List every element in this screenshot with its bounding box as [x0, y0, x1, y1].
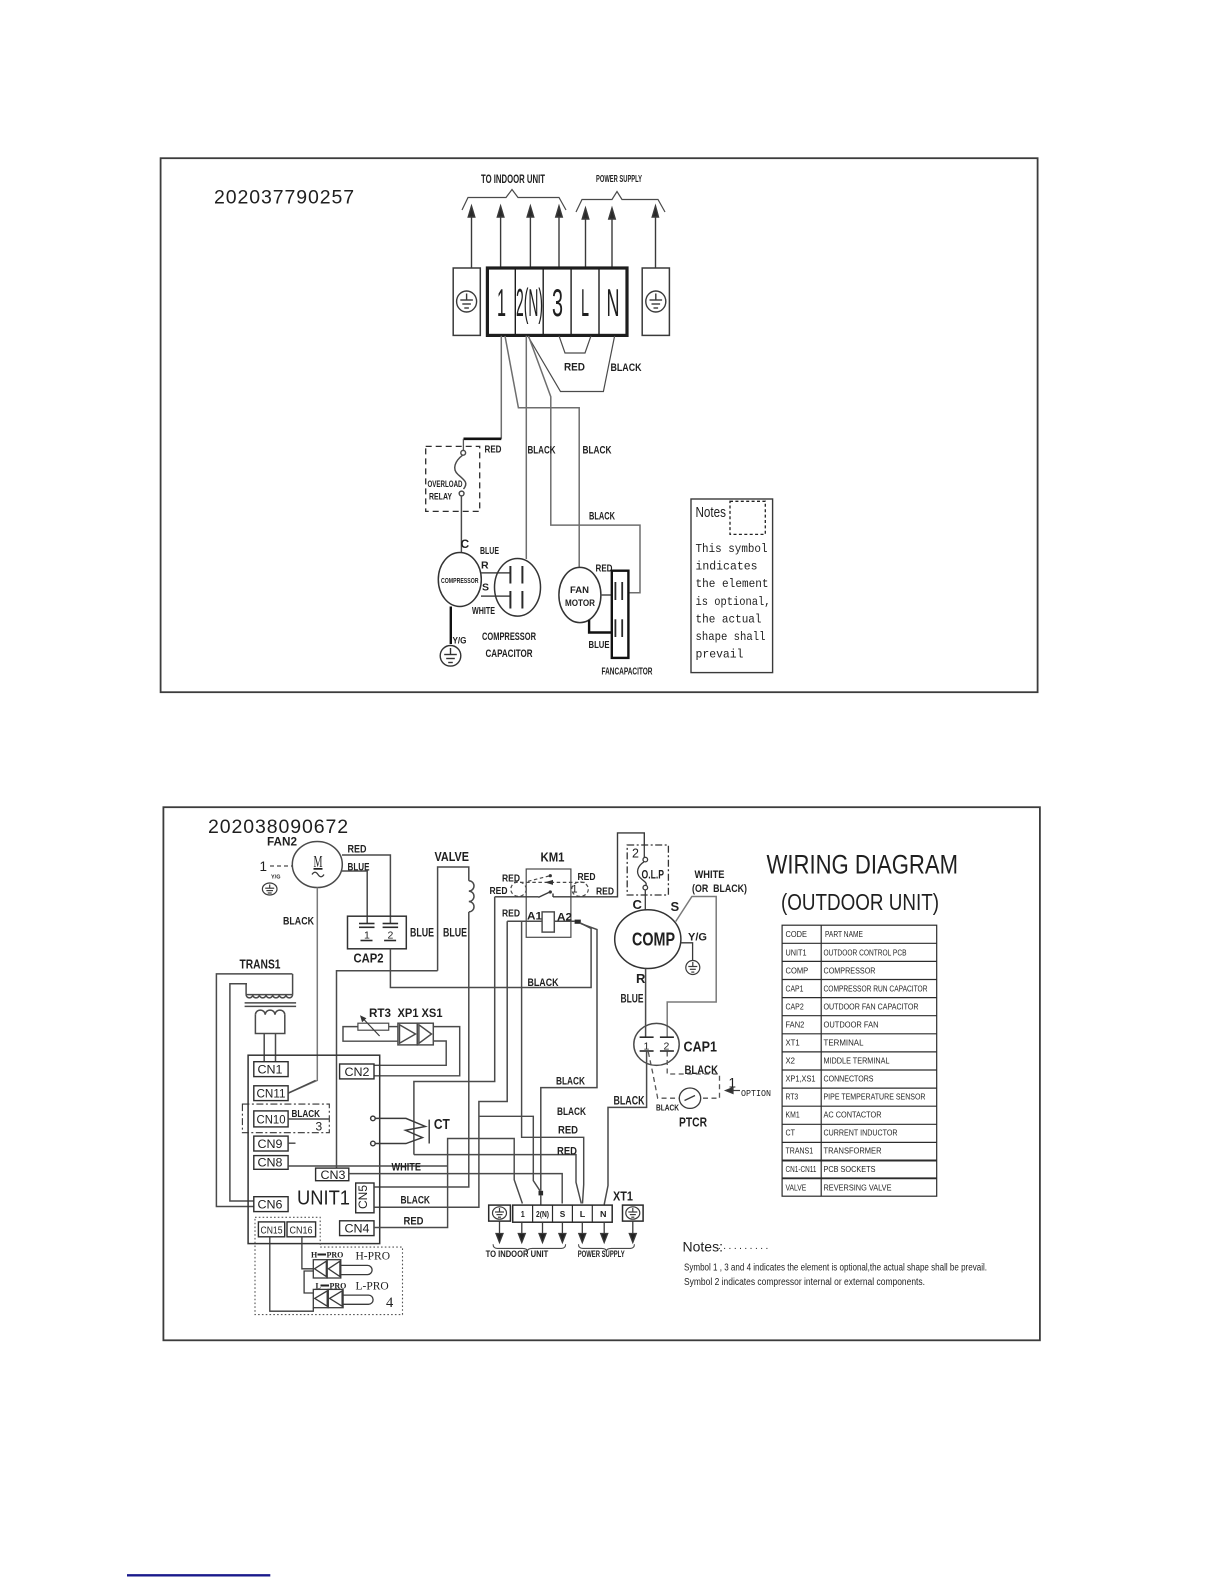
svg-text:CURRENT INDUCTOR: CURRENT INDUCTOR: [824, 1129, 898, 1138]
svg-text:RED: RED: [557, 1146, 577, 1158]
svg-text:..........: ..........: [718, 1241, 771, 1252]
svg-text:OUTDOOR FAN: OUTDOOR FAN: [824, 1021, 879, 1030]
svg-text:X2: X2: [786, 1057, 796, 1066]
svg-text:L-PRO: L-PRO: [356, 1281, 389, 1293]
svg-text:(OR BLACK): (OR BLACK): [692, 883, 747, 895]
svg-text:CN9: CN9: [258, 1139, 283, 1151]
svg-text:CN3: CN3: [321, 1170, 346, 1182]
svg-text:BLACK: BLACK: [656, 1103, 680, 1113]
svg-text:COMP: COMP: [786, 967, 809, 976]
svg-text:2: 2: [664, 1041, 670, 1053]
svg-text:BLACK: BLACK: [589, 511, 615, 523]
svg-text:XT1: XT1: [786, 1039, 800, 1048]
svg-text:RT3: RT3: [786, 1093, 799, 1102]
svg-text:UNIT1: UNIT1: [786, 949, 807, 958]
svg-text:2: 2: [632, 847, 639, 861]
svg-text:RED: RED: [596, 563, 613, 575]
svg-text:RED: RED: [596, 886, 614, 898]
svg-text:FAN2: FAN2: [786, 1021, 805, 1030]
svg-text:AC CONTACTOR: AC CONTACTOR: [824, 1111, 882, 1120]
svg-text:1: 1: [497, 282, 506, 325]
svg-text:Notes: Notes: [696, 504, 727, 521]
svg-text:is optional,: is optional,: [696, 595, 771, 609]
svg-text:RED: RED: [404, 1216, 424, 1228]
svg-text:MOTOR: MOTOR: [565, 598, 595, 608]
svg-text:Y/G: Y/G: [688, 932, 707, 944]
svg-text:XP1: XP1: [398, 1006, 419, 1020]
svg-text:TRANSFORMER: TRANSFORMER: [824, 1147, 882, 1156]
svg-text:TO INDOOR UNIT: TO INDOOR UNIT: [481, 174, 545, 186]
svg-text:CN11: CN11: [257, 1089, 286, 1101]
svg-text:PART NAME: PART NAME: [825, 930, 863, 939]
svg-text:COMPRESSOR: COMPRESSOR: [824, 967, 876, 976]
svg-text:C: C: [461, 537, 470, 551]
svg-text:CN10: CN10: [257, 1115, 286, 1127]
svg-text:H: H: [311, 1251, 318, 1260]
svg-text:CN6: CN6: [258, 1200, 283, 1212]
svg-text:N: N: [607, 282, 620, 325]
svg-text:COMP: COMP: [632, 929, 675, 950]
svg-text:O.L.P: O.L.P: [642, 870, 665, 882]
svg-text:RED: RED: [564, 362, 585, 374]
svg-text:BLACK: BLACK: [283, 916, 314, 928]
svg-text:CN15: CN15: [261, 1226, 283, 1237]
svg-text:WHITE: WHITE: [472, 605, 495, 617]
svg-text:CT: CT: [786, 1129, 796, 1138]
svg-text:CONNECTORS: CONNECTORS: [824, 1075, 874, 1084]
svg-text:prevail: prevail: [696, 648, 744, 662]
svg-text:FAN2: FAN2: [267, 835, 297, 849]
svg-text:CN8: CN8: [258, 1158, 283, 1170]
svg-text:3: 3: [552, 282, 563, 325]
svg-text:COMPRESSOR RUN CAPACITOR: COMPRESSOR RUN CAPACITOR: [824, 985, 928, 994]
svg-text:Y/G: Y/G: [453, 636, 467, 647]
svg-text:BLUE: BLUE: [443, 926, 467, 940]
svg-text:BLACK: BLACK: [528, 977, 559, 989]
svg-text:RT3: RT3: [369, 1006, 391, 1020]
svg-text:POWER SUPPLY: POWER SUPPLY: [596, 174, 642, 185]
svg-text:the actual: the actual: [696, 612, 762, 626]
svg-text:BLACK: BLACK: [685, 1063, 719, 1077]
svg-text:UNIT1: UNIT1: [297, 1188, 350, 1210]
svg-text:WIRING DIAGRAM: WIRING DIAGRAM: [767, 850, 959, 880]
svg-text:Notes:: Notes:: [683, 1239, 723, 1255]
svg-text:R: R: [636, 971, 646, 986]
svg-text:L: L: [316, 1282, 321, 1291]
svg-text:CT: CT: [434, 1117, 450, 1133]
svg-text:WHITE: WHITE: [392, 1162, 422, 1174]
svg-text:COMPRESSOR: COMPRESSOR: [482, 631, 536, 643]
svg-text:1: 1: [521, 1210, 525, 1219]
svg-text:CN4: CN4: [345, 1224, 371, 1236]
svg-text:PRO: PRO: [327, 1251, 344, 1260]
svg-text:POWER SUPPLY: POWER SUPPLY: [578, 1249, 625, 1259]
svg-text:BLUE: BLUE: [480, 545, 499, 557]
svg-text:BLACK: BLACK: [614, 1094, 645, 1108]
svg-text:BLUE: BLUE: [410, 926, 434, 940]
svg-text:RED: RED: [348, 844, 367, 856]
svg-text:OPTION: OPTION: [741, 1088, 771, 1099]
svg-text:1: 1: [644, 1041, 650, 1053]
svg-text:Y/G: Y/G: [271, 875, 280, 881]
svg-text:S: S: [560, 1210, 566, 1219]
svg-text:XP1,XS1: XP1,XS1: [786, 1075, 816, 1084]
svg-text:KM1: KM1: [786, 1111, 800, 1120]
svg-text:M: M: [314, 852, 323, 871]
svg-text:Symbol 1 , 3 and 4 indicates t: Symbol 1 , 3 and 4 indicates the element…: [684, 1263, 987, 1274]
svg-text:202037790257: 202037790257: [214, 187, 355, 209]
svg-text:CAP2: CAP2: [354, 952, 384, 966]
svg-text:L: L: [581, 282, 589, 325]
svg-text:BLACK: BLACK: [557, 1106, 586, 1118]
svg-text:N: N: [600, 1210, 607, 1219]
svg-text:CAP1: CAP1: [684, 1040, 718, 1056]
svg-text:indicates: indicates: [696, 560, 758, 574]
svg-text:2: 2: [388, 930, 394, 942]
svg-text:RED: RED: [485, 444, 502, 456]
svg-text:MIDDLE TERMINAL: MIDDLE TERMINAL: [824, 1057, 891, 1066]
svg-text:CODE: CODE: [786, 930, 807, 939]
svg-text:XT1: XT1: [613, 1190, 633, 1204]
svg-text:RED: RED: [578, 871, 596, 883]
svg-text:CN5: CN5: [358, 1185, 370, 1209]
svg-text:TO INDOOR UNIT: TO INDOOR UNIT: [486, 1249, 549, 1259]
svg-text:S: S: [671, 899, 680, 914]
svg-text:WHITE: WHITE: [695, 869, 725, 881]
svg-text:BLACK: BLACK: [401, 1195, 431, 1207]
svg-text:1: 1: [572, 884, 578, 896]
svg-text:BLUE: BLUE: [621, 994, 644, 1006]
svg-text:BLACK: BLACK: [611, 362, 642, 374]
svg-text:TRANS1: TRANS1: [240, 958, 281, 972]
svg-text:Symbol 2 indicates compressor: Symbol 2 indicates compressor internal o…: [684, 1277, 925, 1288]
svg-text:L: L: [580, 1210, 586, 1219]
svg-text:KM1: KM1: [541, 851, 565, 865]
svg-text:4: 4: [386, 1295, 394, 1311]
svg-text:PRO: PRO: [330, 1282, 347, 1291]
svg-text:FAN: FAN: [570, 585, 589, 595]
svg-text:CAP2: CAP2: [786, 1003, 804, 1012]
svg-text:PTCR: PTCR: [679, 1116, 707, 1130]
svg-text:the element: the element: [696, 577, 769, 591]
svg-text:PCB SOCKETS: PCB SOCKETS: [824, 1165, 876, 1174]
svg-text:CAP1: CAP1: [786, 985, 804, 994]
svg-text:(OUTDOOR UNIT): (OUTDOOR UNIT): [781, 889, 939, 915]
svg-text:COMPRESSOR: COMPRESSOR: [441, 576, 479, 585]
svg-text:REVERSING VALVE: REVERSING VALVE: [824, 1184, 892, 1193]
svg-text:OVERLOAD: OVERLOAD: [428, 479, 463, 489]
svg-text:BLACK: BLACK: [583, 445, 612, 457]
svg-text:shape shall: shape shall: [696, 630, 766, 644]
svg-text:OUTDOOR FAN CAPACITOR: OUTDOOR FAN CAPACITOR: [824, 1003, 919, 1012]
svg-text:XS1: XS1: [422, 1006, 443, 1020]
svg-text:H-PRO: H-PRO: [356, 1251, 391, 1263]
svg-text:CN16: CN16: [290, 1226, 313, 1237]
svg-text:RED: RED: [502, 908, 520, 920]
svg-text:CAPACITOR: CAPACITOR: [486, 648, 533, 660]
svg-text:BLACK: BLACK: [528, 445, 556, 457]
svg-text:RED: RED: [558, 1125, 578, 1137]
svg-text:TRANS1: TRANS1: [786, 1147, 814, 1156]
svg-text:CN1: CN1: [258, 1065, 283, 1077]
svg-text:3: 3: [316, 1120, 323, 1134]
svg-text:BLACK: BLACK: [556, 1076, 585, 1088]
svg-text:R: R: [481, 560, 489, 572]
svg-text:S: S: [482, 582, 489, 594]
svg-text:TERMINAL: TERMINAL: [824, 1039, 865, 1048]
svg-text:2(N): 2(N): [536, 1210, 549, 1219]
svg-text:RED: RED: [502, 873, 520, 885]
svg-text:1: 1: [364, 930, 370, 942]
svg-text:PIPE TEMPERATURE SENSOR: PIPE TEMPERATURE SENSOR: [824, 1093, 926, 1102]
svg-text:VALVE: VALVE: [435, 850, 470, 864]
svg-text:1: 1: [260, 859, 268, 874]
svg-text:VALVE: VALVE: [786, 1184, 807, 1193]
svg-text:RED: RED: [490, 885, 508, 897]
svg-text:BLUE: BLUE: [589, 639, 610, 651]
svg-text:FANCAPACITOR: FANCAPACITOR: [602, 667, 653, 678]
svg-text:2(N): 2(N): [516, 282, 543, 325]
svg-text:RELAY: RELAY: [429, 492, 452, 502]
svg-text:OUTDOOR CONTROL PCB: OUTDOOR CONTROL PCB: [824, 949, 907, 958]
svg-text:CN1-CN11: CN1-CN11: [786, 1165, 817, 1174]
svg-text:This symbol: This symbol: [696, 542, 768, 556]
svg-text:CN2: CN2: [345, 1067, 370, 1079]
